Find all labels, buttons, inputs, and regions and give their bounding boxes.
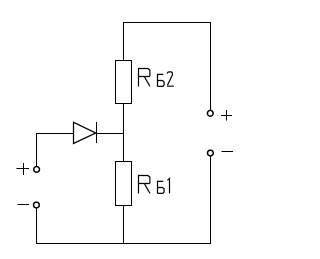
label: R Б2 (value label of upper resistor) bbox=[139, 69, 174, 87]
wire: diode cathode to divider middle node bbox=[96, 133, 124, 135]
diode cathode bar bbox=[96, 122, 98, 143]
diode VD (anode triangle) bbox=[74, 122, 96, 143]
label: - at left input bbox=[18, 204, 29, 206]
terminal: + input (left top circle) bbox=[34, 167, 40, 173]
wire: left vertical from + input terminal up to diode feed corner bbox=[36, 133, 38, 166]
wire: right vertical from - output terminal to bottom bus bbox=[210, 157, 212, 245]
wire: from + input corner to diode anode bbox=[36, 133, 74, 135]
terminal: + output (right top circle) bbox=[207, 110, 213, 116]
wire: left vertical from - input terminal to bottom bus bbox=[36, 208, 38, 244]
wire: right vertical down to + output terminal bbox=[210, 22, 212, 110]
wire: between resistors (divider node joined by diode) bbox=[123, 103, 125, 162]
label: + at left input bbox=[17, 163, 29, 175]
wire: top lead of resistor R Б2 bbox=[123, 22, 125, 61]
label: - at right output bbox=[222, 151, 234, 153]
label: + at right output bbox=[221, 110, 232, 121]
resistor R Б1 body bbox=[116, 162, 132, 206]
wire: bottom bus bbox=[36, 243, 211, 245]
wire: bottom lead of resistor R Б1 to bottom bus bbox=[123, 205, 125, 244]
label: R Б1 (value label of lower resistor) bbox=[139, 176, 170, 194]
terminal: - output (right bottom circle) bbox=[208, 150, 214, 156]
wire: top bus from divider branch to right output bbox=[123, 22, 211, 24]
resistor R Б2 body bbox=[116, 61, 132, 104]
terminal: - input (left bottom circle) bbox=[34, 202, 40, 208]
